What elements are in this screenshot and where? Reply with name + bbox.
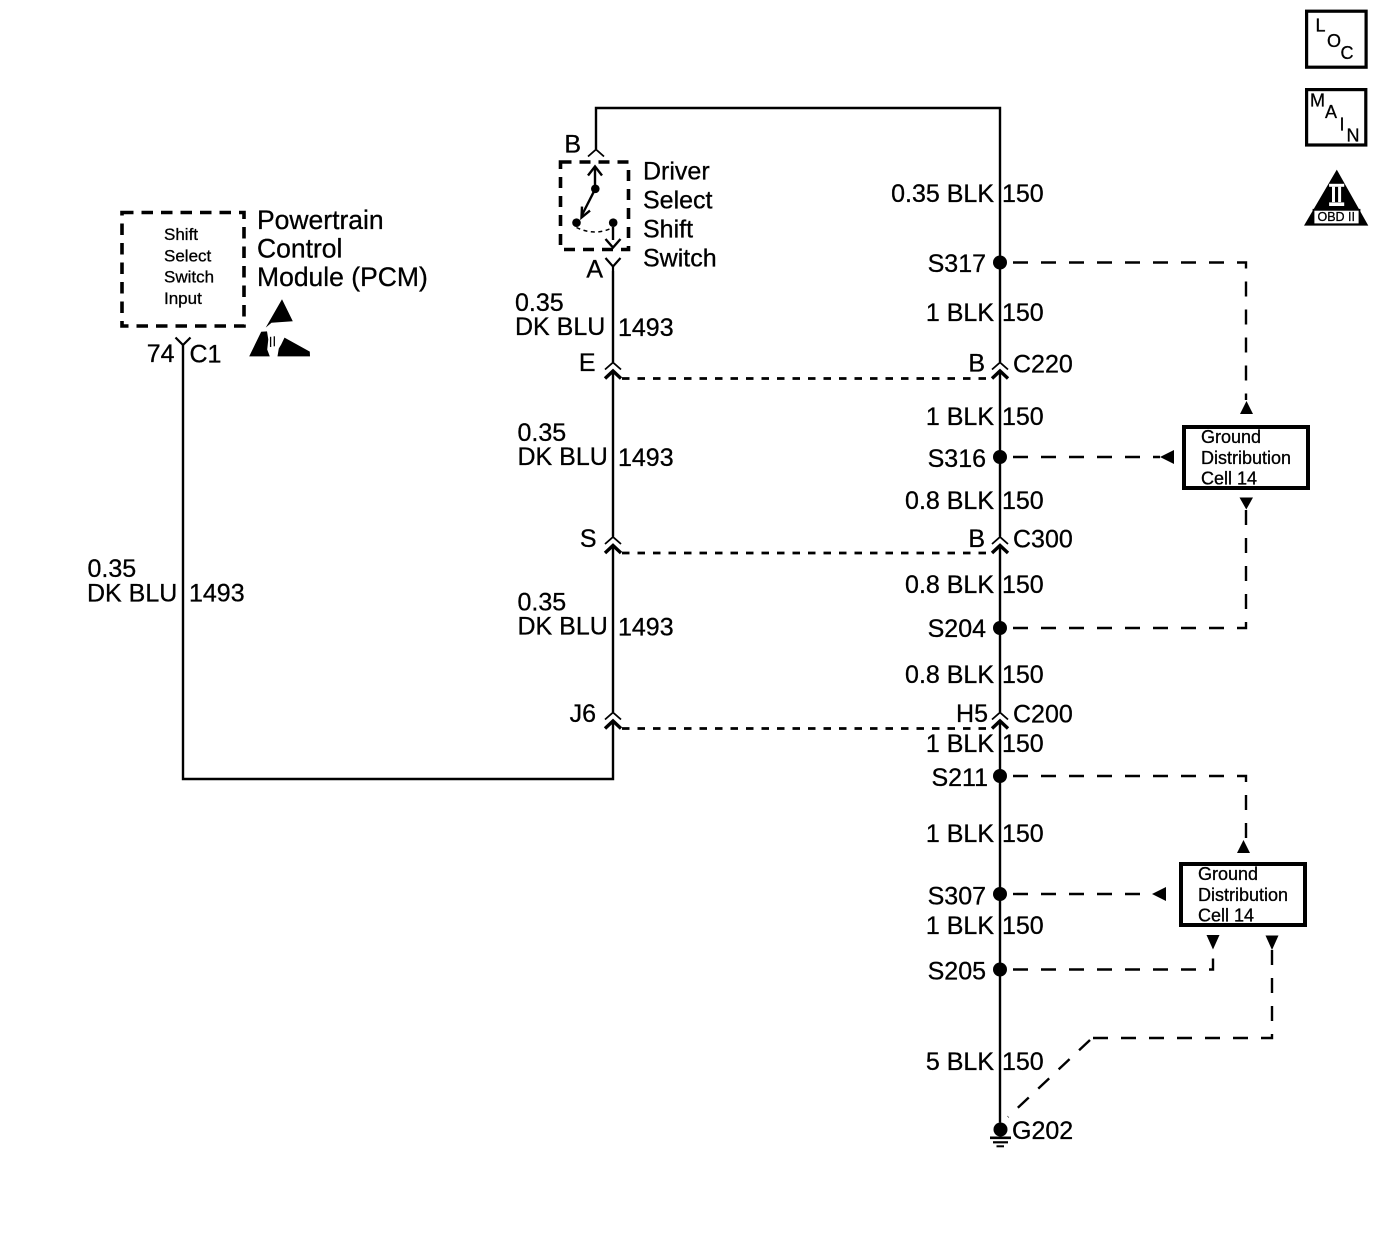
svg-text:C1: C1 xyxy=(190,341,222,369)
svg-text:Shift: Shift xyxy=(164,225,198,244)
svg-text:Ground: Ground xyxy=(1198,864,1258,884)
svg-text:150: 150 xyxy=(1002,180,1044,208)
svg-text:B: B xyxy=(968,350,985,378)
svg-text:150: 150 xyxy=(1002,487,1044,515)
svg-text:150: 150 xyxy=(1002,571,1044,599)
svg-text:S307: S307 xyxy=(928,883,986,911)
svg-text:Select: Select xyxy=(643,187,713,215)
svg-text:C220: C220 xyxy=(1013,351,1073,379)
svg-text:1 BLK: 1 BLK xyxy=(926,912,994,940)
svg-text:H5: H5 xyxy=(956,700,988,728)
svg-text:E: E xyxy=(579,349,596,377)
svg-text:I: I xyxy=(1340,115,1345,135)
svg-text:G202: G202 xyxy=(1012,1117,1073,1145)
svg-text:DK BLU: DK BLU xyxy=(87,580,177,608)
svg-text:Module (PCM): Module (PCM) xyxy=(257,262,428,292)
svg-text:L: L xyxy=(1316,16,1326,36)
svg-text:5 BLK: 5 BLK xyxy=(926,1048,994,1076)
svg-text:74: 74 xyxy=(147,340,175,368)
svg-text:S: S xyxy=(580,525,597,553)
svg-text:1 BLK: 1 BLK xyxy=(926,403,994,431)
svg-text:Ground: Ground xyxy=(1201,427,1261,447)
svg-text:150: 150 xyxy=(1002,820,1044,848)
svg-text:Cell 14: Cell 14 xyxy=(1201,469,1257,489)
svg-text:S204: S204 xyxy=(928,615,986,643)
svg-text:150: 150 xyxy=(1002,730,1044,758)
svg-text:Control: Control xyxy=(257,234,342,264)
svg-text:N: N xyxy=(1347,126,1360,146)
svg-text:O: O xyxy=(1327,31,1341,51)
svg-text:Cell 14: Cell 14 xyxy=(1198,906,1254,926)
svg-text:Shift: Shift xyxy=(643,216,693,244)
svg-text:S205: S205 xyxy=(928,958,986,986)
svg-text:150: 150 xyxy=(1002,912,1044,940)
svg-text:1 BLK: 1 BLK xyxy=(926,299,994,327)
svg-text:1493: 1493 xyxy=(189,580,245,608)
svg-text:1 BLK: 1 BLK xyxy=(926,730,994,758)
svg-text:0.8 BLK: 0.8 BLK xyxy=(905,487,994,515)
svg-text:Powertrain: Powertrain xyxy=(257,205,384,235)
svg-text:150: 150 xyxy=(1002,1048,1044,1076)
svg-text:DK BLU: DK BLU xyxy=(518,443,608,471)
svg-text:150: 150 xyxy=(1002,661,1044,689)
svg-text:Distribution: Distribution xyxy=(1198,885,1288,905)
svg-text:0.8 BLK: 0.8 BLK xyxy=(905,571,994,599)
svg-text:DK BLU: DK BLU xyxy=(518,613,608,641)
svg-text:S316: S316 xyxy=(928,445,986,473)
svg-text:Select: Select xyxy=(164,247,212,266)
svg-text:B: B xyxy=(564,131,581,159)
svg-text:B: B xyxy=(968,525,985,553)
svg-text:C: C xyxy=(1341,43,1354,63)
svg-text:1 BLK: 1 BLK xyxy=(926,820,994,848)
svg-text:150: 150 xyxy=(1002,299,1044,327)
svg-text:150: 150 xyxy=(1002,403,1044,431)
svg-text:C200: C200 xyxy=(1013,701,1073,729)
svg-text:J6: J6 xyxy=(570,700,596,728)
svg-text:S317: S317 xyxy=(928,250,986,278)
svg-text:Distribution: Distribution xyxy=(1201,448,1291,468)
svg-text:DK BLU: DK BLU xyxy=(515,313,605,341)
svg-text:M: M xyxy=(1310,91,1325,111)
svg-text:1493: 1493 xyxy=(618,614,674,642)
svg-text:0.8 BLK: 0.8 BLK xyxy=(905,661,994,689)
svg-text:Input: Input xyxy=(164,289,202,308)
svg-text:Switch: Switch xyxy=(164,268,214,287)
svg-text:Driver: Driver xyxy=(643,158,710,186)
svg-text:A: A xyxy=(1325,102,1337,122)
svg-text:0.35 BLK: 0.35 BLK xyxy=(891,180,994,208)
svg-text:A: A xyxy=(586,256,603,284)
svg-text:OBD II: OBD II xyxy=(1318,210,1356,224)
svg-text:1493: 1493 xyxy=(618,444,674,472)
svg-text:S211: S211 xyxy=(931,764,988,792)
svg-text:1493: 1493 xyxy=(618,314,674,342)
svg-text:Switch: Switch xyxy=(643,245,717,273)
svg-text:C300: C300 xyxy=(1013,526,1073,554)
